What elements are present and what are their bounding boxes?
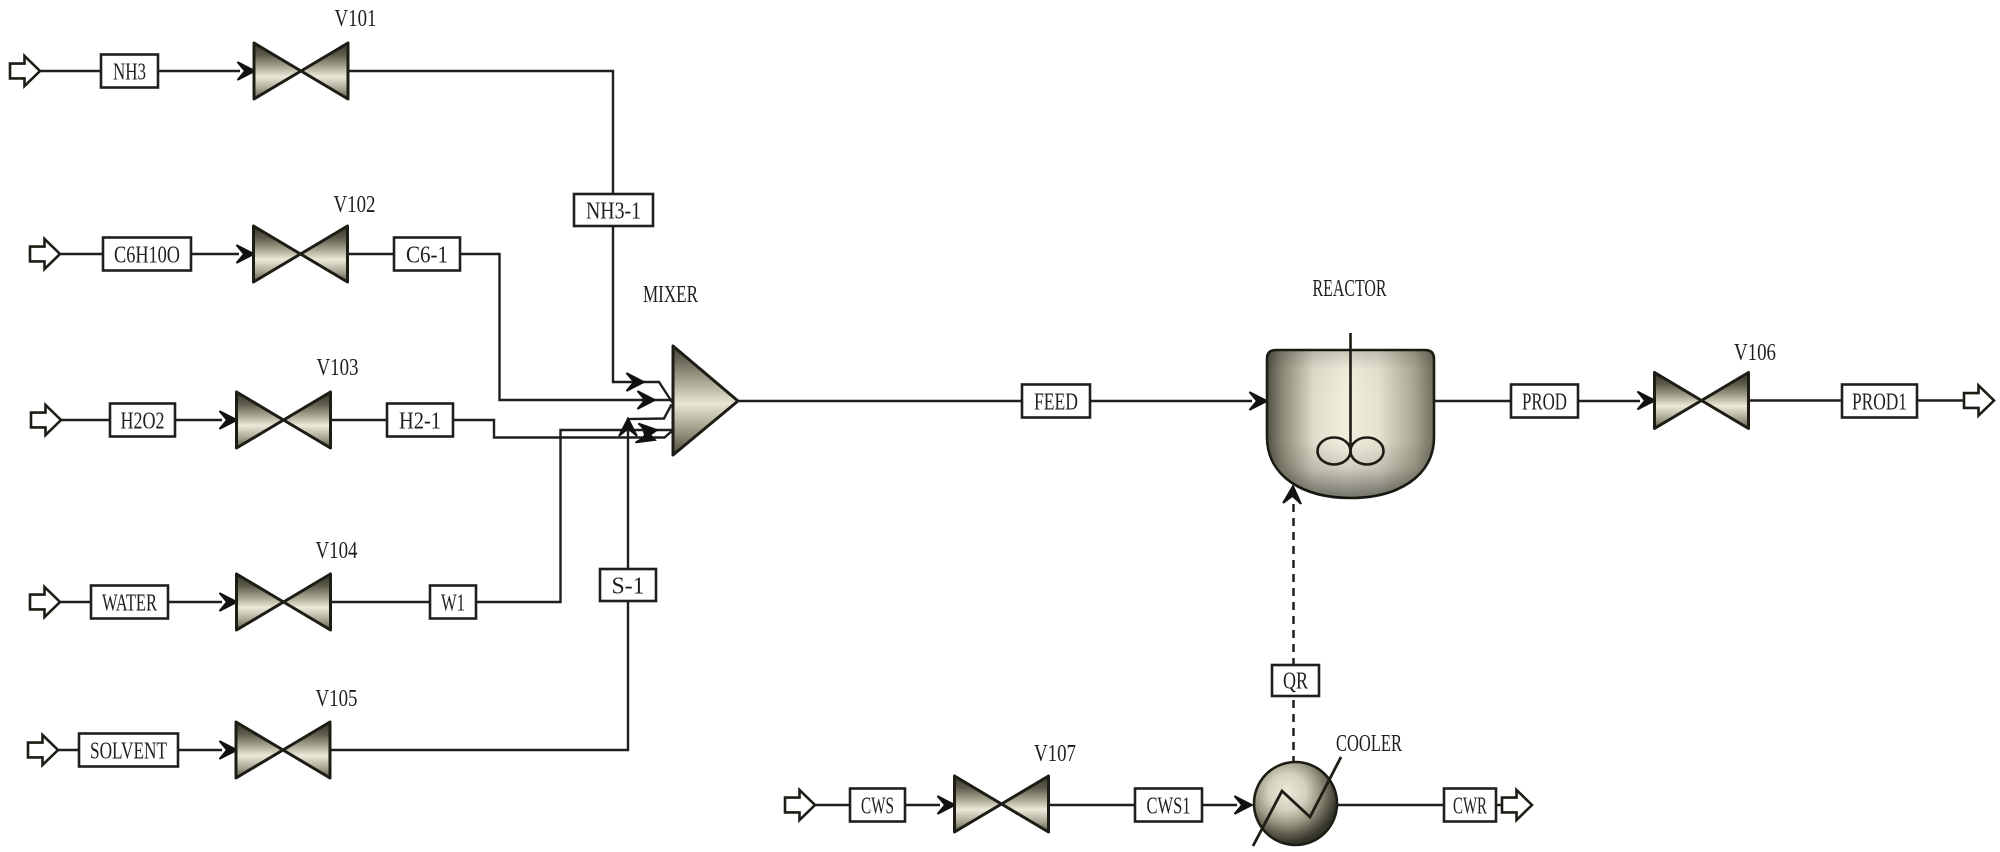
wire xyxy=(60,253,103,255)
svg-text:V105: V105 xyxy=(316,686,358,712)
arrowhead NH3-1 xyxy=(627,373,645,391)
feed arrow NH3 inlet xyxy=(10,56,40,86)
stream label NH3-1 xyxy=(574,194,653,226)
feed arrow C6H10O inlet xyxy=(30,239,60,269)
cooling water outlet arrow xyxy=(1502,790,1532,820)
wire xyxy=(58,749,79,751)
wire xyxy=(60,601,91,603)
arrowhead xyxy=(220,593,238,611)
wire xyxy=(348,71,660,382)
svg-text:S-1: S-1 xyxy=(612,574,645,600)
svg-text:REACTOR: REACTOR xyxy=(1313,276,1387,302)
valve V106 xyxy=(1655,373,1749,429)
svg-text:PROD: PROD xyxy=(1522,390,1567,416)
svg-text:V102: V102 xyxy=(334,192,376,218)
reactor vessel xyxy=(1267,350,1434,498)
wire xyxy=(1496,804,1502,806)
stream label CWR xyxy=(1444,789,1496,822)
wire xyxy=(1434,400,1511,402)
wire xyxy=(330,405,672,751)
stream label CWS xyxy=(850,789,905,822)
wire xyxy=(175,419,222,421)
wire to mixer port xyxy=(659,382,672,402)
svg-text:PROD1: PROD1 xyxy=(1852,390,1907,416)
arrowhead xyxy=(237,245,255,263)
svg-text:C6-1: C6-1 xyxy=(406,243,448,269)
arrowhead xyxy=(238,62,256,80)
arrowhead S-1 xyxy=(619,419,637,437)
feed arrow SOLVENT inlet xyxy=(28,735,58,765)
svg-text:NH3-1: NH3-1 xyxy=(586,199,641,225)
stream label C6H10O xyxy=(103,238,191,271)
stream label SOLVENT xyxy=(79,734,178,767)
wire xyxy=(1202,804,1237,806)
wire xyxy=(40,70,101,72)
stream label QR xyxy=(1272,665,1319,696)
svg-text:V104: V104 xyxy=(316,538,358,564)
wire xyxy=(905,804,940,806)
svg-text:CWS1: CWS1 xyxy=(1147,794,1191,820)
svg-text:CWS: CWS xyxy=(861,794,894,820)
valve V104 xyxy=(237,574,331,630)
wire xyxy=(1578,400,1640,402)
stream label FEED xyxy=(1022,385,1090,418)
stirrer shaft xyxy=(1349,333,1352,448)
svg-text:CWR: CWR xyxy=(1453,794,1487,820)
stream label CWS1 xyxy=(1135,789,1202,822)
svg-text:QR: QR xyxy=(1283,669,1308,695)
arrowhead H2-1 xyxy=(635,426,658,449)
svg-text:V101: V101 xyxy=(335,6,377,32)
dashed wire QR xyxy=(1292,504,1295,762)
wire xyxy=(1337,804,1444,806)
svg-text:FEED: FEED xyxy=(1034,390,1078,416)
svg-text:COOLER: COOLER xyxy=(1336,731,1402,757)
stream label NH3 xyxy=(101,55,158,88)
valve V107 xyxy=(955,776,1049,832)
stream label S-1 xyxy=(600,569,656,601)
svg-text:V103: V103 xyxy=(317,355,359,381)
wire xyxy=(476,430,673,602)
wire xyxy=(191,253,239,255)
svg-text:C6H10O: C6H10O xyxy=(114,243,180,269)
arrowhead xyxy=(1235,796,1253,814)
svg-text:WATER: WATER xyxy=(102,591,157,617)
mixer block xyxy=(673,346,738,455)
wire xyxy=(1749,399,1842,401)
cooler COOLER xyxy=(1253,757,1341,846)
arrowhead C6-1 xyxy=(638,391,656,409)
stream label W1 xyxy=(430,586,476,619)
valve V103 xyxy=(237,392,331,448)
wire xyxy=(1917,399,1964,401)
feed arrow CWS inlet xyxy=(785,790,815,820)
stream label C6-1 xyxy=(394,238,460,271)
stream label H2O2 xyxy=(110,404,175,437)
svg-text:H2-1: H2-1 xyxy=(399,409,441,435)
wire xyxy=(331,601,430,603)
svg-text:H2O2: H2O2 xyxy=(121,409,165,435)
wire xyxy=(178,749,222,751)
feed arrow WATER inlet xyxy=(30,587,60,617)
wire xyxy=(1048,804,1135,806)
wire xyxy=(61,419,110,421)
arrowhead W1 xyxy=(638,421,658,441)
arrowhead xyxy=(220,411,238,429)
stream label WATER xyxy=(91,586,168,619)
stream label H2-1 xyxy=(387,404,453,437)
arrowhead QR xyxy=(1283,486,1302,504)
valve V105 xyxy=(236,722,330,778)
svg-text:V107: V107 xyxy=(1034,741,1076,767)
wire xyxy=(158,70,240,72)
wire xyxy=(453,420,673,438)
feed arrow H2O2 inlet xyxy=(31,405,61,435)
valve V102 xyxy=(254,226,348,282)
arrowhead xyxy=(220,741,238,759)
svg-text:W1: W1 xyxy=(441,591,465,617)
wire xyxy=(815,804,850,806)
stream label PROD xyxy=(1511,385,1578,418)
stream label PROD1 xyxy=(1842,385,1917,418)
wire xyxy=(460,254,673,400)
wire xyxy=(738,400,1022,402)
svg-text:NH3: NH3 xyxy=(113,60,146,86)
wire xyxy=(168,601,222,603)
product outlet arrow xyxy=(1964,386,1994,416)
svg-text:V106: V106 xyxy=(1734,340,1776,366)
arrowhead xyxy=(938,796,956,814)
valve V101 xyxy=(254,43,348,99)
svg-text:SOLVENT: SOLVENT xyxy=(90,739,167,765)
wire xyxy=(1090,400,1252,402)
svg-text:MIXER: MIXER xyxy=(643,282,698,308)
arrowhead PROD xyxy=(1638,392,1656,410)
wire xyxy=(347,253,394,255)
impeller xyxy=(1318,438,1351,465)
arrowhead FEED xyxy=(1250,392,1268,410)
wire xyxy=(331,419,387,421)
